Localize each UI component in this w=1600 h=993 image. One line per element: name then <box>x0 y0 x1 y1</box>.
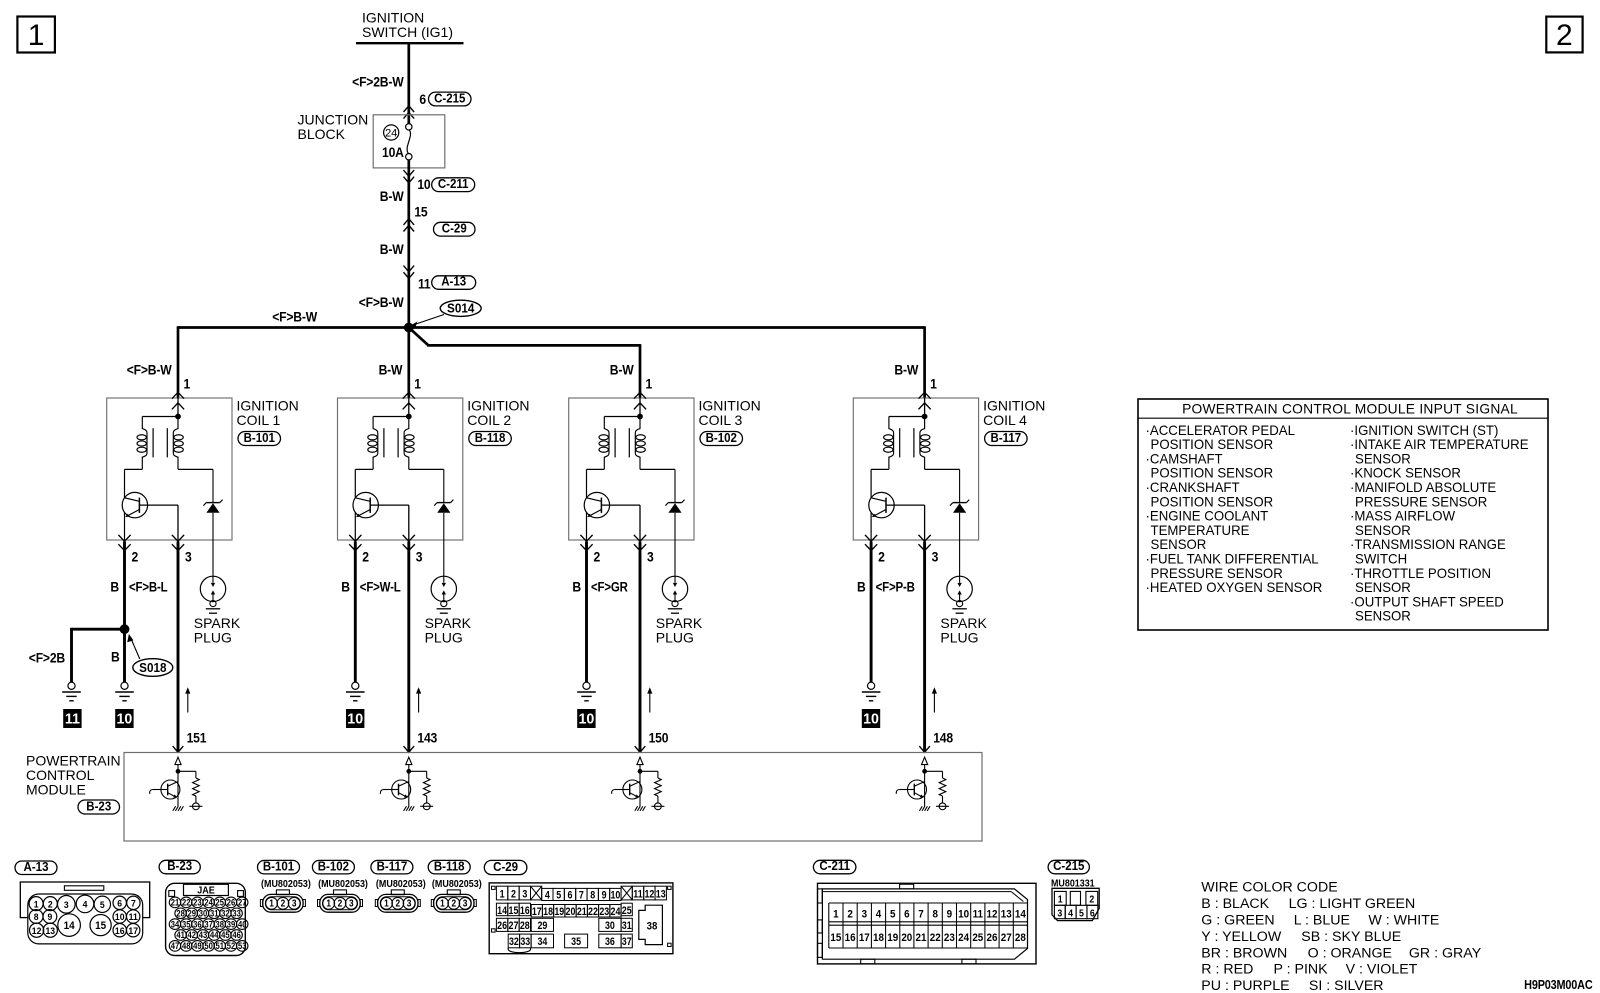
svg-text:30: 30 <box>199 908 208 919</box>
svg-text:C-211: C-211 <box>438 177 469 192</box>
svg-text:34: 34 <box>171 919 180 930</box>
connector C-215 pin 6 <box>404 91 472 119</box>
spark plug 4 <box>940 540 987 646</box>
svg-text:28: 28 <box>520 920 530 932</box>
coil 1 pin 3 <box>172 535 192 565</box>
svg-text:POSITION SENSOR: POSITION SENSOR <box>1151 466 1274 481</box>
svg-text:38: 38 <box>216 919 225 930</box>
svg-text:14: 14 <box>497 905 507 917</box>
svg-text:6: 6 <box>419 91 426 107</box>
svg-text:10: 10 <box>116 711 132 727</box>
svg-text:17: 17 <box>128 925 138 936</box>
junction block <box>298 112 445 168</box>
svg-text:7: 7 <box>131 898 136 909</box>
svg-text:6: 6 <box>904 908 910 921</box>
connector B-118 pinout <box>428 859 482 912</box>
page number 1 <box>17 17 55 53</box>
svg-text:1: 1 <box>326 898 331 909</box>
connector C-29 pinout <box>484 860 673 954</box>
wire B-W junction block to splice S014 <box>380 160 409 328</box>
svg-text:1: 1 <box>269 898 274 909</box>
svg-text:1: 1 <box>28 19 45 52</box>
svg-text:1: 1 <box>34 899 39 910</box>
ground (coil 4 pin 2) <box>862 682 881 701</box>
svg-text:4: 4 <box>876 908 882 921</box>
svg-text:B-117: B-117 <box>377 859 408 874</box>
svg-text:3: 3 <box>407 898 412 909</box>
svg-text:29: 29 <box>537 920 547 932</box>
svg-text:24: 24 <box>958 931 969 944</box>
svg-text:<F>B-L: <F>B-L <box>129 580 168 595</box>
ignition coil 3 box <box>569 398 761 541</box>
svg-text:B-102: B-102 <box>706 430 738 445</box>
svg-text:2: 2 <box>878 549 885 565</box>
svg-text:13: 13 <box>656 889 666 901</box>
PCM igniter driver channel 3 <box>612 757 665 811</box>
svg-text:2: 2 <box>1556 19 1573 52</box>
svg-text:36: 36 <box>605 937 615 949</box>
splice S018 <box>29 625 173 682</box>
svg-text:21: 21 <box>577 906 587 918</box>
svg-text:POWERTRAIN CONTROL MODULE INPU: POWERTRAIN CONTROL MODULE INPUT SIGNAL <box>1182 402 1518 417</box>
svg-text:5: 5 <box>100 900 105 911</box>
coil 1 pin 2 <box>118 535 138 565</box>
svg-text:B-118: B-118 <box>475 430 506 445</box>
svg-text:WIRE COLOR CODE: WIRE COLOR CODE <box>1201 880 1337 896</box>
svg-text:C-29: C-29 <box>442 221 467 236</box>
svg-text:47: 47 <box>171 940 180 951</box>
svg-text:52: 52 <box>227 940 236 951</box>
svg-text:<F>GR: <F>GR <box>591 580 628 595</box>
svg-text:TEMPERATURE: TEMPERATURE <box>1151 523 1250 538</box>
wire coil 1 pin 3 to PCM pin 151 <box>173 542 207 753</box>
spark plug 3 <box>656 540 703 646</box>
svg-text:SWITCH (IG1): SWITCH (IG1) <box>362 24 453 40</box>
svg-text:44: 44 <box>210 929 219 940</box>
svg-text:46: 46 <box>232 929 241 940</box>
ground ref 10 (coil 2) <box>347 710 364 728</box>
svg-text:1: 1 <box>414 376 421 392</box>
svg-text:36: 36 <box>193 919 202 930</box>
svg-text:MODULE: MODULE <box>26 782 86 798</box>
spark plug 1 <box>194 540 241 646</box>
svg-text:C-211: C-211 <box>819 859 850 874</box>
svg-text:3: 3 <box>349 898 354 909</box>
svg-text:14: 14 <box>1015 908 1026 921</box>
svg-text:24: 24 <box>385 128 397 140</box>
svg-text:15: 15 <box>414 204 427 220</box>
connector A-13 pinout <box>15 859 150 943</box>
svg-text:V : VIOLET: V : VIOLET <box>1346 962 1418 978</box>
splice S014 <box>359 294 481 332</box>
coil 4 pin 2 ground wire B <F>P-B <box>857 542 915 683</box>
page number 2 <box>1546 17 1582 53</box>
svg-text:33: 33 <box>232 908 241 919</box>
svg-text:SENSOR: SENSOR <box>1355 580 1411 595</box>
svg-text:3: 3 <box>862 908 868 921</box>
svg-text:PRESSURE SENSOR: PRESSURE SENSOR <box>1151 566 1284 581</box>
svg-text:22: 22 <box>588 906 598 918</box>
svg-text:33: 33 <box>520 937 530 949</box>
svg-text:32: 32 <box>221 908 230 919</box>
svg-text:12: 12 <box>644 889 654 901</box>
svg-text:C-29: C-29 <box>493 860 518 875</box>
svg-text:PRESSURE SENSOR: PRESSURE SENSOR <box>1355 494 1488 509</box>
svg-text:·CAMSHAFT: ·CAMSHAFT <box>1146 451 1223 466</box>
svg-text:9: 9 <box>947 908 953 921</box>
connector C-29 pin 15 <box>404 204 476 236</box>
svg-text:SI : SILVER: SI : SILVER <box>1309 978 1384 993</box>
svg-text:PU : PURPLE: PU : PURPLE <box>1201 978 1289 993</box>
svg-text:19: 19 <box>887 931 898 944</box>
svg-text:143: 143 <box>417 730 437 746</box>
wire <F>2B-W from ignition switch <box>352 43 409 123</box>
svg-text:14: 14 <box>64 920 75 932</box>
coil 1 power transistor <box>122 469 178 540</box>
svg-text:20: 20 <box>901 931 912 944</box>
ground ref 11 <box>64 710 81 728</box>
svg-text:B : BLACK: B : BLACK <box>1201 896 1269 912</box>
svg-text:29: 29 <box>188 908 197 919</box>
coil 3 power transistor <box>584 469 640 540</box>
svg-text:SENSOR: SENSOR <box>1355 609 1411 624</box>
connector A-13 pin 11 <box>404 266 476 292</box>
svg-text:B-23: B-23 <box>86 799 111 814</box>
svg-text:12: 12 <box>987 908 998 921</box>
svg-text:2: 2 <box>451 898 456 909</box>
svg-text:·ENGINE COOLANT: ·ENGINE COOLANT <box>1146 508 1269 523</box>
svg-text:25: 25 <box>972 931 983 944</box>
svg-text:C-215: C-215 <box>1053 859 1085 874</box>
svg-text:15: 15 <box>95 920 106 932</box>
svg-text:·THROTTLE POSITION: ·THROTTLE POSITION <box>1350 566 1491 581</box>
svg-text:PLUG: PLUG <box>425 630 463 646</box>
svg-text:23: 23 <box>944 931 955 944</box>
svg-text:18: 18 <box>543 906 553 918</box>
svg-text:3: 3 <box>292 898 297 909</box>
svg-text:22: 22 <box>182 897 191 908</box>
svg-text:H9P03M00AC: H9P03M00AC <box>1524 977 1593 992</box>
ground (coil 3 pin 2) <box>577 682 596 701</box>
ignition coil 4 box <box>853 398 1045 541</box>
svg-text:3: 3 <box>1057 907 1062 919</box>
svg-text:·IGNITION SWITCH (ST): ·IGNITION SWITCH (ST) <box>1350 423 1498 438</box>
svg-text:B-W: B-W <box>610 362 635 378</box>
svg-text:B-102: B-102 <box>318 859 350 874</box>
svg-text:3: 3 <box>463 898 468 909</box>
svg-text:10: 10 <box>578 711 594 727</box>
svg-text:1: 1 <box>930 376 937 392</box>
svg-text:7: 7 <box>579 890 584 902</box>
coil 4 pin 3 <box>919 535 939 565</box>
svg-text:<F>2B-W: <F>2B-W <box>352 74 404 90</box>
svg-text:28: 28 <box>176 908 185 919</box>
svg-text:26: 26 <box>227 897 236 908</box>
svg-text:24: 24 <box>611 906 621 918</box>
ground ref 10 (coil 1) <box>116 710 133 728</box>
coil 2 zener diode <box>434 469 453 540</box>
svg-text:·MASS AIRFLOW: ·MASS AIRFLOW <box>1350 508 1455 523</box>
svg-text:11: 11 <box>418 276 431 292</box>
svg-text:10: 10 <box>115 912 125 923</box>
coil 2 pin 1 <box>403 392 415 417</box>
svg-text:B-23: B-23 <box>167 859 192 874</box>
svg-text:13: 13 <box>1001 908 1012 921</box>
svg-text:G : GREEN: G : GREEN <box>1201 912 1274 928</box>
svg-text:16: 16 <box>115 925 125 936</box>
wire B-W branch to ignition coil 2 <box>379 362 421 392</box>
svg-text:2: 2 <box>847 908 853 921</box>
svg-text:POSITION SENSOR: POSITION SENSOR <box>1151 437 1274 452</box>
svg-text:16: 16 <box>845 931 856 944</box>
coil 4 pin 2 <box>865 535 885 565</box>
svg-text:(MU802053): (MU802053) <box>261 878 311 890</box>
svg-text:·INTAKE AIR TEMPERATURE: ·INTAKE AIR TEMPERATURE <box>1350 437 1529 452</box>
svg-text:(MU802053): (MU802053) <box>318 878 368 890</box>
svg-text:32: 32 <box>509 937 519 949</box>
svg-text:11: 11 <box>65 711 80 727</box>
ground ref 10 (coil 4) <box>862 710 879 728</box>
svg-text:8: 8 <box>590 890 595 902</box>
ignition switch (IG1) <box>356 10 464 44</box>
svg-text:20: 20 <box>566 906 576 918</box>
coil 2 transformer <box>355 414 444 469</box>
svg-text:40: 40 <box>238 919 247 930</box>
svg-text:21: 21 <box>916 931 927 944</box>
svg-text:<F>B-W: <F>B-W <box>127 362 173 378</box>
coil 1 zener diode <box>203 469 222 540</box>
svg-text:S014: S014 <box>447 301 474 316</box>
svg-text:53: 53 <box>238 940 247 951</box>
svg-text:31: 31 <box>622 920 632 932</box>
svg-text:<F>B-W: <F>B-W <box>272 309 318 325</box>
svg-text:2: 2 <box>362 549 369 565</box>
svg-text:·MANIFOLD ABSOLUTE: ·MANIFOLD ABSOLUTE <box>1350 480 1496 495</box>
svg-text:COIL 2: COIL 2 <box>467 412 511 428</box>
coil 3 pin 2 <box>580 535 600 565</box>
coil 3 pin 2 ground wire B <F>GR <box>572 542 627 683</box>
svg-text:SWITCH: SWITCH <box>1355 551 1407 566</box>
wire coil 2 pin 3 to PCM pin 143 <box>404 542 438 753</box>
svg-text:25: 25 <box>216 897 225 908</box>
svg-text:10: 10 <box>610 890 620 902</box>
svg-text:6: 6 <box>117 898 122 909</box>
svg-text:10: 10 <box>347 711 363 727</box>
svg-text:(MU802053): (MU802053) <box>432 878 482 890</box>
connector C-211 pinout <box>813 859 1036 964</box>
svg-text:38: 38 <box>647 921 658 933</box>
svg-text:2: 2 <box>48 899 53 910</box>
svg-text:37: 37 <box>622 937 632 949</box>
svg-text:COIL 3: COIL 3 <box>699 412 743 428</box>
ignition coil 1 box <box>107 398 299 541</box>
svg-text:LG : LIGHT GREEN: LG : LIGHT GREEN <box>1289 896 1416 912</box>
ignition coil 2 box <box>338 398 530 541</box>
wire color code legend <box>1201 880 1481 993</box>
svg-text:24: 24 <box>204 897 213 908</box>
svg-text:1: 1 <box>1058 893 1063 905</box>
fuse 24 10A <box>382 124 412 161</box>
svg-text:35: 35 <box>571 937 581 949</box>
svg-text:PLUG: PLUG <box>656 630 694 646</box>
svg-text:·ACCELERATOR PEDAL: ·ACCELERATOR PEDAL <box>1146 423 1295 438</box>
svg-text:2: 2 <box>281 898 286 909</box>
svg-text:S018: S018 <box>139 660 166 675</box>
svg-text:JAE: JAE <box>197 885 214 897</box>
drawing number H9P03M00AC <box>1524 977 1593 992</box>
svg-text:·KNOCK SENSOR: ·KNOCK SENSOR <box>1350 466 1461 481</box>
svg-text:B-117: B-117 <box>991 430 1022 445</box>
coil 1 pin 2 ground wire B <F>B-L <box>110 542 168 630</box>
svg-text:COIL 4: COIL 4 <box>983 412 1027 428</box>
wire coil 4 pin 3 to PCM pin 148 <box>919 542 953 753</box>
svg-text:5: 5 <box>556 890 561 902</box>
svg-text:PLUG: PLUG <box>194 630 232 646</box>
svg-text:9: 9 <box>602 890 607 902</box>
svg-text:1: 1 <box>500 889 505 901</box>
svg-text:5: 5 <box>890 908 896 921</box>
svg-text:·TRANSMISSION RANGE: ·TRANSMISSION RANGE <box>1350 537 1506 552</box>
svg-text:18: 18 <box>873 931 884 944</box>
svg-text:150: 150 <box>649 730 669 746</box>
svg-text:B: B <box>572 579 581 595</box>
svg-text:13: 13 <box>45 925 55 936</box>
svg-text:C-215: C-215 <box>434 91 466 106</box>
svg-text:B: B <box>111 649 120 665</box>
coil 2 pin 2 <box>349 535 369 565</box>
svg-text:3: 3 <box>932 549 939 565</box>
svg-text:10A: 10A <box>382 145 404 161</box>
svg-text:3: 3 <box>522 889 527 901</box>
svg-text:B-W: B-W <box>380 241 405 257</box>
coil 2 power transistor <box>353 469 409 540</box>
powertrain control module box <box>26 753 982 842</box>
svg-text:27: 27 <box>509 920 519 932</box>
svg-text:3: 3 <box>185 549 192 565</box>
svg-text:41: 41 <box>176 929 185 940</box>
svg-text:<F>2B: <F>2B <box>29 650 65 666</box>
ground (coil 2 pin 2) <box>346 682 365 701</box>
svg-text:2: 2 <box>338 898 343 909</box>
svg-text:31: 31 <box>210 908 219 919</box>
coil 2 pin 2 ground wire B <F>W-L <box>341 542 401 683</box>
coil 1 pin 1 <box>172 392 184 417</box>
coil 4 transformer <box>871 414 960 469</box>
svg-text:26: 26 <box>497 920 507 932</box>
svg-text:10: 10 <box>417 176 430 192</box>
coil 3 transformer <box>587 414 676 469</box>
svg-text:<F>P-B: <F>P-B <box>876 580 915 595</box>
connector B-102 pinout <box>312 859 368 912</box>
svg-text:10: 10 <box>863 711 879 727</box>
svg-text:<F>W-L: <F>W-L <box>360 580 401 595</box>
svg-text:37: 37 <box>204 919 213 930</box>
svg-text:51: 51 <box>216 940 225 951</box>
svg-text:O : ORANGE: O : ORANGE <box>1308 945 1392 961</box>
svg-text:45: 45 <box>221 929 230 940</box>
PCM igniter driver channel 2 <box>380 757 433 811</box>
svg-text:39: 39 <box>227 919 236 930</box>
svg-text:2: 2 <box>594 549 601 565</box>
svg-text:49: 49 <box>193 940 202 951</box>
connector B-23 pinout <box>159 859 248 956</box>
svg-text:3: 3 <box>647 549 654 565</box>
svg-text:SENSOR: SENSOR <box>1355 451 1411 466</box>
svg-text:8: 8 <box>34 912 39 923</box>
svg-text:23: 23 <box>193 897 202 908</box>
svg-text:1: 1 <box>384 898 389 909</box>
ground (coil 1 <F>2B) <box>62 682 81 701</box>
svg-text:3: 3 <box>64 900 69 911</box>
svg-text:43: 43 <box>199 929 208 940</box>
svg-text:48: 48 <box>182 940 191 951</box>
svg-text:B-W: B-W <box>379 362 404 378</box>
svg-text:19: 19 <box>554 906 564 918</box>
svg-text:B-W: B-W <box>894 362 919 378</box>
svg-text:2: 2 <box>1089 893 1094 905</box>
svg-text:1: 1 <box>833 908 839 921</box>
svg-text:R : RED: R : RED <box>1201 962 1253 978</box>
wire coil 3 pin 3 to PCM pin 150 <box>635 542 669 753</box>
connector B-101 pinout <box>258 859 311 912</box>
svg-text:B: B <box>857 579 866 595</box>
svg-text:BLOCK: BLOCK <box>298 126 346 142</box>
svg-text:6: 6 <box>568 890 573 902</box>
wire <F>B-W branch to ignition coil 1 <box>127 362 190 392</box>
svg-text:GR : GRAY: GR : GRAY <box>1409 945 1482 961</box>
svg-text:·OUTPUT SHAFT SPEED: ·OUTPUT SHAFT SPEED <box>1350 594 1504 609</box>
svg-text:27: 27 <box>238 897 247 908</box>
svg-text:17: 17 <box>532 906 542 918</box>
svg-text:W : WHITE: W : WHITE <box>1368 912 1439 928</box>
svg-text:2: 2 <box>511 889 516 901</box>
connector C-215 pinout <box>1048 859 1099 921</box>
svg-text:34: 34 <box>537 937 547 949</box>
svg-text:17: 17 <box>859 931 870 944</box>
connector B-117 pinout <box>371 859 426 912</box>
svg-text:15: 15 <box>509 905 519 917</box>
svg-text:11: 11 <box>633 889 643 901</box>
svg-text:B-118: B-118 <box>434 859 465 874</box>
svg-text:26: 26 <box>987 931 998 944</box>
wire B-W branch to ignition coil 3 <box>610 362 652 392</box>
svg-text:15: 15 <box>830 931 841 944</box>
svg-text:9: 9 <box>47 912 52 923</box>
coil 3 pin 1 <box>634 392 646 417</box>
svg-text:·CRANKSHAFT: ·CRANKSHAFT <box>1146 480 1240 495</box>
coil 2 pin 3 <box>403 535 423 565</box>
svg-text:27: 27 <box>1001 931 1012 944</box>
svg-text:6: 6 <box>1090 907 1095 919</box>
svg-text:SB : SKY BLUE: SB : SKY BLUE <box>1301 929 1401 945</box>
svg-text:COIL 1: COIL 1 <box>237 412 281 428</box>
svg-text:7: 7 <box>918 908 924 921</box>
connector C-211 pin 10 <box>404 170 475 192</box>
svg-text:12: 12 <box>32 925 42 936</box>
svg-text:30: 30 <box>605 920 615 932</box>
svg-text:25: 25 <box>622 905 632 917</box>
svg-text:BR : BROWN: BR : BROWN <box>1201 945 1287 961</box>
svg-text:1: 1 <box>440 898 445 909</box>
wire bus <F>B-W to ignition coils <box>178 309 925 398</box>
svg-text:11: 11 <box>129 912 138 923</box>
svg-text:1: 1 <box>646 376 653 392</box>
svg-text:Y : YELLOW: Y : YELLOW <box>1201 929 1282 945</box>
svg-text:PLUG: PLUG <box>940 630 978 646</box>
coil 4 power transistor <box>869 469 925 540</box>
svg-text:23: 23 <box>599 906 609 918</box>
svg-text:(MU802053): (MU802053) <box>376 878 426 890</box>
